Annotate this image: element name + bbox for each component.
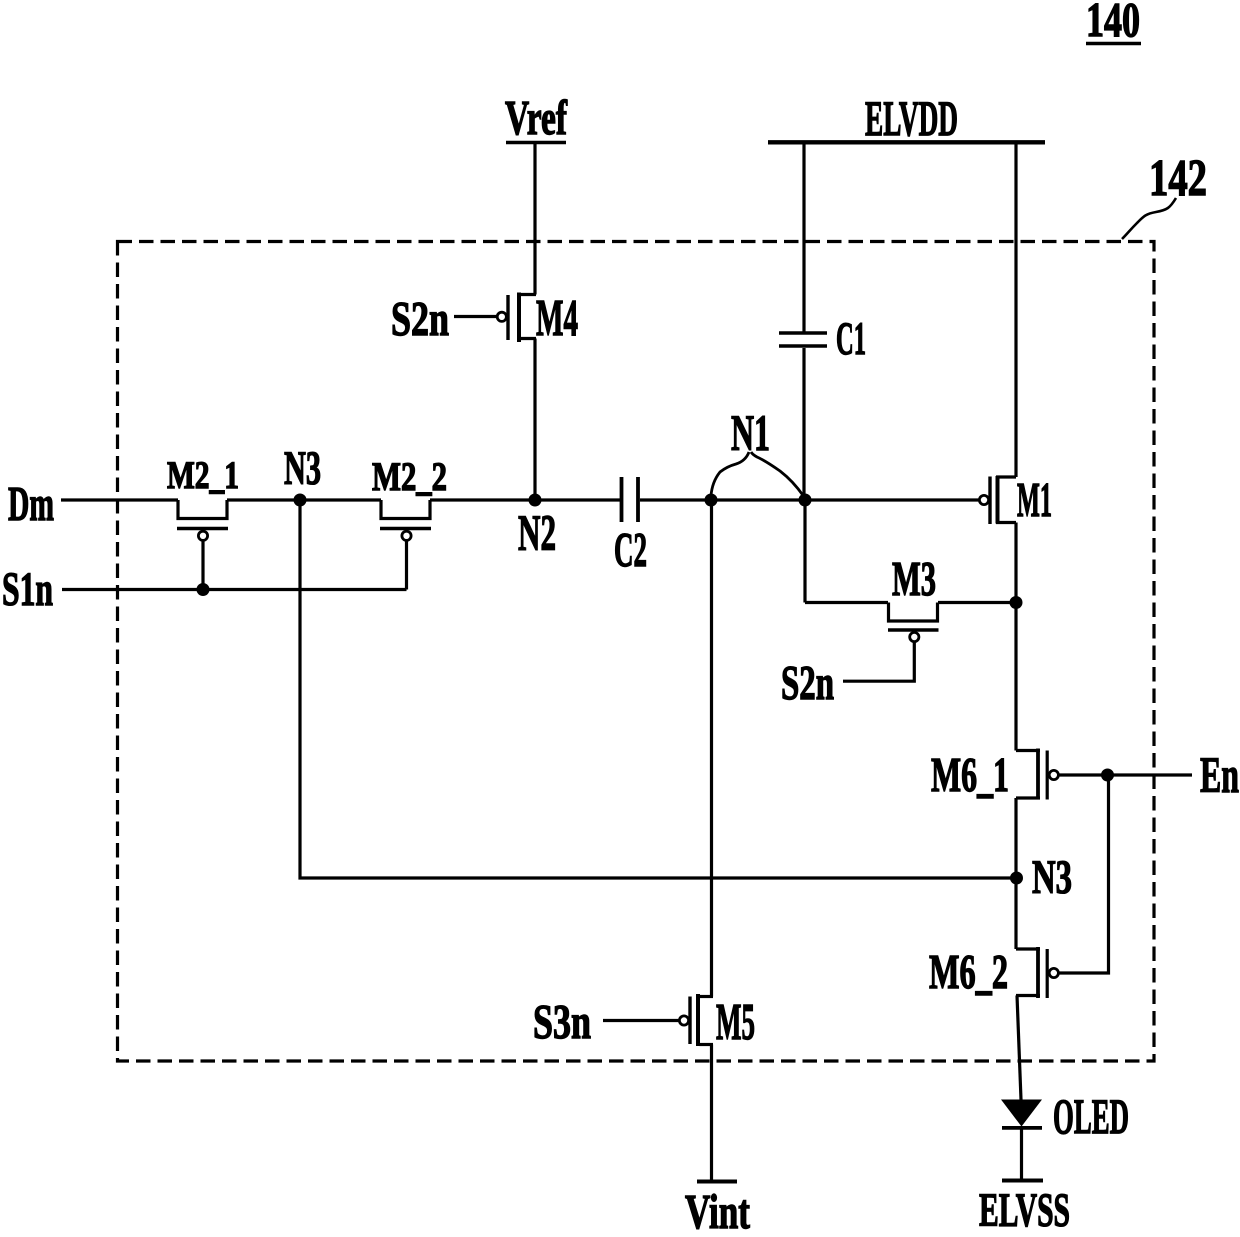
svg-text:S2n: S2n — [781, 655, 834, 710]
wire N2 junction down to M5 — [710, 500, 713, 997]
svg-text:M4: M4 — [536, 290, 578, 347]
svg-text:M2_2: M2_2 — [372, 454, 447, 499]
svg-text:142: 142 — [1149, 150, 1207, 207]
transistor M6_1 — [931, 747, 1058, 802]
wire Vref vertical upper — [533, 144, 536, 295]
dashed pixel-circuit box 142 — [118, 242, 1155, 1062]
svg-text:M6_1: M6_1 — [931, 747, 1009, 802]
capacitor C1 — [779, 313, 866, 365]
svg-text:140: 140 — [1086, 0, 1140, 47]
junction S1n / M2_1 gate — [197, 583, 210, 596]
wire N3 vertical drop — [300, 500, 1016, 878]
svg-text:OLED: OLED — [1053, 1088, 1129, 1144]
svg-text:En: En — [1200, 748, 1239, 804]
terminal ELVSS — [979, 1181, 1070, 1237]
node N3 (right) — [1010, 851, 1072, 904]
wire M5 to Vint — [710, 1045, 713, 1182]
svg-text:Vref: Vref — [505, 90, 567, 145]
wire N1 down to M3 — [803, 500, 806, 603]
wire ELVDD left rail — [802, 144, 805, 332]
svg-text:S3n: S3n — [533, 994, 591, 1049]
terminal ELVDD — [768, 90, 1045, 146]
label 142 with leader — [1122, 150, 1207, 239]
wire M2_2 to node N2 — [430, 498, 535, 501]
transistor M5 — [679, 994, 755, 1051]
wire N1 segment — [711, 498, 805, 501]
wire Vref vertical lower to node N2 — [533, 339, 536, 501]
svg-text:C2: C2 — [614, 522, 647, 577]
wire M6_1 gate to En — [1059, 773, 1193, 776]
transistor M3 — [805, 551, 1016, 642]
node N1 — [705, 406, 812, 507]
node N3 (left) — [284, 442, 321, 507]
wire Dm — [61, 498, 178, 501]
wire ELVDD right rail — [1014, 144, 1017, 477]
transistor M6_2 — [929, 944, 1058, 999]
svg-text:N3: N3 — [284, 442, 321, 495]
wire M3 gate to S2n — [843, 642, 914, 682]
wire N2 to C2 — [535, 498, 620, 501]
svg-text:M5: M5 — [716, 994, 755, 1051]
transistor M2_1 — [167, 454, 239, 590]
node N2 — [518, 494, 556, 563]
svg-text:M6_2: M6_2 — [929, 944, 1008, 999]
svg-text:S1n: S1n — [2, 563, 53, 616]
wire M2_1 to node N3 — [227, 498, 381, 501]
svg-text:ELVSS: ELVSS — [979, 1184, 1070, 1232]
svg-text:M2_1: M2_1 — [167, 454, 239, 497]
svg-text:S2n: S2n — [391, 291, 449, 346]
wire C1 to node N1 — [802, 348, 805, 500]
figure number 140 — [1086, 0, 1141, 47]
svg-text:C1: C1 — [836, 313, 866, 365]
capacitor C2 — [614, 477, 647, 577]
wire M6_2 gate riser to En — [1059, 775, 1109, 973]
transistor M4 — [497, 290, 578, 347]
wire S2n to M4 gate — [454, 315, 497, 318]
wire C2 to node N1 — [640, 498, 711, 501]
svg-text:Vint: Vint — [685, 1184, 750, 1232]
wire M6_1 to node N3 — [1014, 798, 1017, 949]
svg-text:N3: N3 — [1032, 851, 1072, 904]
svg-text:N1: N1 — [731, 406, 770, 462]
junction En — [1101, 769, 1114, 782]
junction M1/M3 — [1010, 596, 1023, 609]
wire OLED to ELVSS — [1020, 1130, 1023, 1181]
wire M6_2 to OLED — [1017, 996, 1021, 1100]
svg-text:N2: N2 — [518, 506, 556, 562]
wire N1 to M1 gate — [805, 498, 979, 501]
wire M1 source to M3 node — [1014, 523, 1017, 751]
terminal Vref — [505, 90, 567, 145]
wire S1n scan line — [62, 588, 407, 591]
wire S3n to M5 gate — [603, 1019, 679, 1022]
transistor M2_2 — [372, 454, 447, 590]
svg-text:M3: M3 — [892, 551, 936, 606]
transistor M1 — [979, 472, 1052, 527]
svg-text:ELVDD: ELVDD — [865, 90, 958, 146]
diode OLED — [1001, 1088, 1129, 1144]
svg-text:Dm: Dm — [8, 476, 54, 531]
svg-text:M1: M1 — [1017, 472, 1052, 527]
terminal Vint — [685, 1182, 750, 1237]
